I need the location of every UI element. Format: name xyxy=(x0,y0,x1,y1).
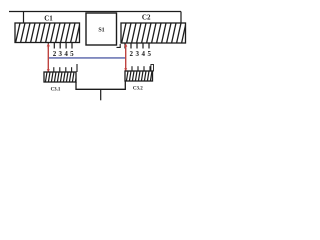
svg-text:4: 4 xyxy=(141,50,145,58)
svg-text:2: 2 xyxy=(53,50,57,58)
svg-text:2: 2 xyxy=(129,50,133,58)
svg-text:3: 3 xyxy=(59,50,63,58)
svg-text:C3.1: C3.1 xyxy=(51,88,61,93)
svg-text:S1: S1 xyxy=(98,28,104,34)
svg-text:3: 3 xyxy=(135,50,139,58)
svg-text:C1: C1 xyxy=(44,14,53,22)
svg-text:5: 5 xyxy=(147,50,151,58)
svg-text:C2: C2 xyxy=(142,13,151,21)
svg-text:5: 5 xyxy=(70,50,74,58)
svg-text:4: 4 xyxy=(64,50,68,58)
svg-text:C3.2: C3.2 xyxy=(133,86,143,91)
